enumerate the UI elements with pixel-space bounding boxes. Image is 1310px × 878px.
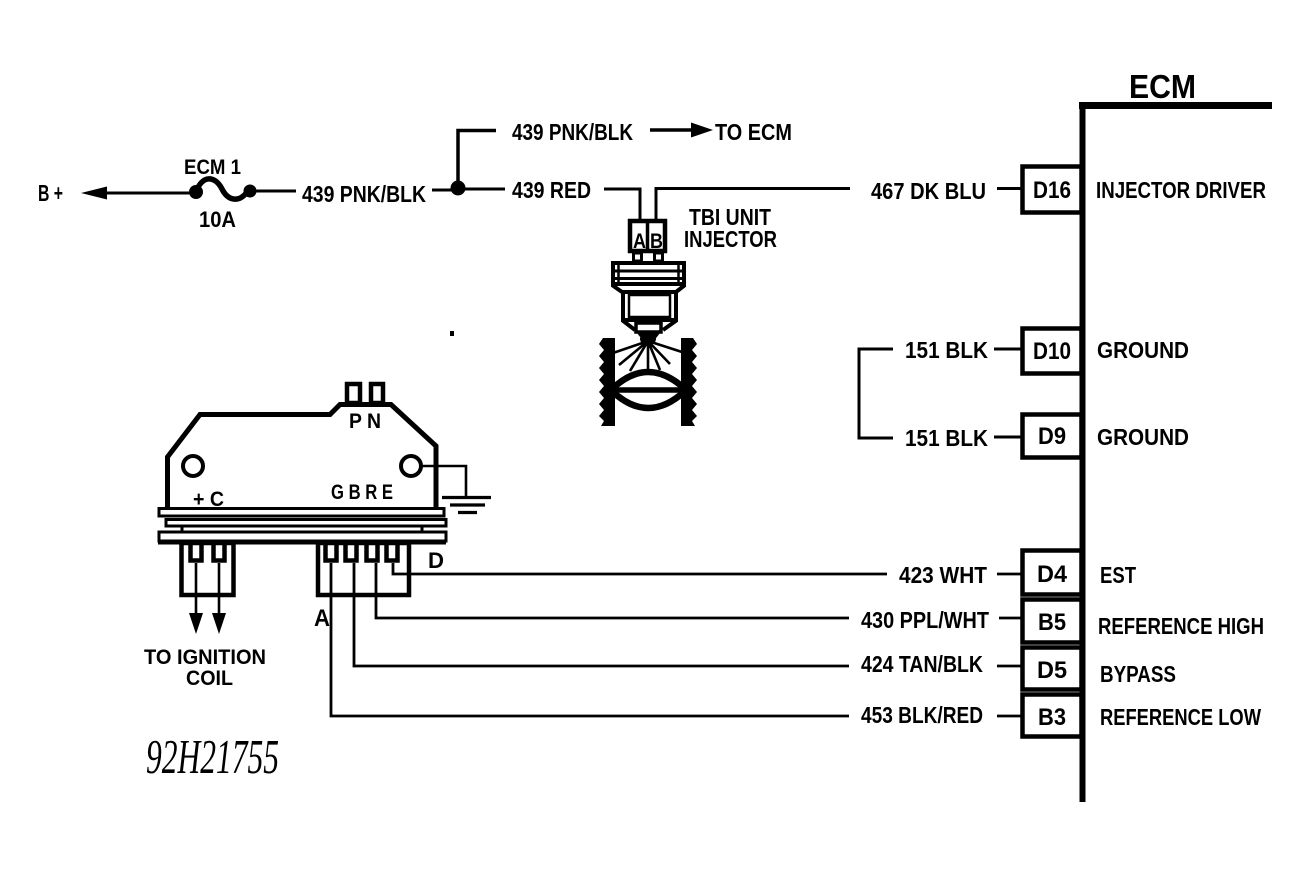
wire label 151 BLK lower [905,425,1021,451]
svg-text:D9: D9 [1038,423,1066,450]
fuse ECM 1 10A [184,156,257,232]
ECM border lines [1079,102,1272,802]
svg-text:423 WHT: 423 WHT [899,562,987,588]
connector pin E [387,543,398,561]
wire 453 BLK/RED to REFERENCE LOW [331,563,1021,728]
label BYPASS [1100,661,1176,687]
label D [428,548,444,573]
svg-text:D: D [428,548,444,573]
svg-text:REFERENCE LOW: REFERENCE LOW [1100,704,1261,730]
module right connector [318,543,409,595]
wire fuse to label 439 PNK/BLK [256,190,296,193]
module terminal N prong [371,384,383,403]
svg-text:B: B [650,230,663,253]
wire junction tap up to ECM [458,131,496,187]
svg-text:COIL: COIL [186,667,233,690]
module terminal P prong [347,384,360,403]
connector pin G [326,543,337,561]
svg-text:92H21755: 92H21755 [146,729,279,784]
svg-text:B3: B3 [1038,704,1066,731]
svg-text:A: A [314,605,330,632]
wire injector pin B to 467 DK BLU [656,189,850,222]
connector pin to coil 1 [191,543,202,561]
wire 151 BLK bracket [859,349,893,438]
injector spray lines [613,341,682,374]
wire label 151 BLK upper [905,337,1021,363]
wire junction to 439 RED label [464,188,505,191]
svg-text:INJECTOR: INJECTOR [684,226,777,252]
module base plate 3 [158,532,446,543]
label INJECTOR DRIVER [1096,177,1266,203]
pin box D5 [1023,648,1082,690]
svg-text:BYPASS: BYPASS [1100,661,1176,687]
svg-text:151 BLK: 151 BLK [905,425,988,451]
svg-text:10A: 10A [199,207,236,232]
injector TBI unit [612,221,685,345]
injector left bore wall hatched [599,338,615,426]
svg-text:ECM 1: ECM 1 [184,156,241,179]
wire 423 WHT to EST [393,562,1021,588]
label TBI UNIT INJECTOR [684,204,777,252]
module base plate 1 [159,509,444,517]
wire B+ arrow to fuse [81,187,190,200]
svg-text:430 PPL/WHT: 430 PPL/WHT [861,607,989,633]
ground [442,498,491,513]
pin box D16 [1023,167,1082,213]
svg-text:REFERENCE HIGH: REFERENCE HIGH [1098,613,1264,639]
injector right bore wall hatched [681,338,697,426]
node B+ terminal label [38,180,63,206]
svg-text:453 BLK/RED: 453 BLK/RED [861,702,983,728]
svg-text:439 PNK/BLK: 439 PNK/BLK [302,181,426,207]
module base plate 2 [166,520,446,533]
svg-text:B +: B + [38,180,63,206]
svg-text:A: A [633,230,646,253]
pin box B5 [1023,600,1082,643]
label + C [193,488,224,511]
label GROUND upper [1097,337,1189,363]
ignition module body [168,405,437,510]
label G B R E [331,481,393,504]
svg-text:ECM: ECM [1129,68,1196,105]
wire label 439 PNK/BLK [302,181,426,207]
svg-text:424 TAN/BLK: 424 TAN/BLK [861,651,983,677]
svg-text:D16: D16 [1033,177,1071,204]
wire arrow to ignition coil 1 [189,563,203,634]
connector pin B [346,543,357,561]
scan speck [450,331,454,336]
label TO IGNITION COIL [144,646,266,690]
connector pin R [367,543,378,561]
svg-text:GROUND: GROUND [1097,424,1189,450]
module left connector [182,543,234,595]
svg-text:D10: D10 [1033,338,1071,365]
pin box D9 [1023,415,1082,458]
label P N [349,410,381,433]
wire 439 RED to injector pin A [604,189,640,221]
label REFERENCE HIGH [1098,613,1264,639]
wire 424 TAN/BLK to BYPASS [354,563,1021,677]
node junction dot [451,181,466,196]
wire label 467 DK BLU [871,178,1021,204]
wire label 439 RED [512,177,591,203]
label 92H21755 [146,729,279,784]
label REFERENCE LOW [1100,704,1261,730]
wire 430 PPL/WHT to REFERENCE HIGH [376,563,1021,633]
wire module to ground [421,466,466,496]
pin box D4 [1023,551,1082,595]
label A [314,605,330,632]
pin box B3 [1023,695,1082,737]
svg-text:D4: D4 [1037,561,1068,588]
pin box D10 [1023,329,1082,374]
svg-text:TO ECM: TO ECM [715,119,792,145]
wire arrow to ignition coil 2 [212,563,226,634]
svg-text:D5: D5 [1037,657,1067,684]
ECM title [1129,68,1196,105]
label GROUND lower [1097,424,1189,450]
svg-text:G B R E: G B R E [331,481,393,504]
svg-text:151 BLK: 151 BLK [905,337,988,363]
label EST [1100,562,1136,588]
wire arrow TO ECM [650,119,792,145]
svg-text:EST: EST [1100,562,1136,588]
svg-text:439 RED: 439 RED [512,177,591,203]
svg-text:P N: P N [349,410,381,433]
svg-text:GROUND: GROUND [1097,337,1189,363]
svg-text:B5: B5 [1038,609,1066,636]
svg-text:INJECTOR DRIVER: INJECTOR DRIVER [1096,177,1266,203]
connector pin to coil 2 [214,543,225,561]
svg-text:TO IGNITION: TO IGNITION [144,646,266,669]
wire label to junction [432,189,452,192]
wire label 439 PNK/BLK tap [512,119,633,145]
svg-text:439 PNK/BLK: 439 PNK/BLK [512,119,633,145]
injector venturi lens [605,372,691,408]
svg-text:467 DK BLU: 467 DK BLU [871,178,986,204]
